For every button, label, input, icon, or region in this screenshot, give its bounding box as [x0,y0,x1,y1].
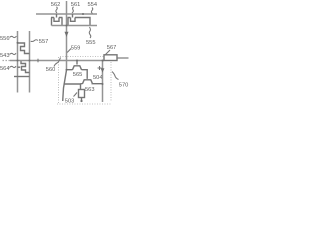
stub tick [37,59,39,63]
label 561 [71,2,81,8]
leader from 557 to line [31,40,38,42]
leader from 570 to boundary [112,72,119,80]
label 553 [85,87,95,93]
leader from 559 to vertical [67,49,71,53]
svg-text:555: 555 [86,40,96,46]
label 554 [88,2,98,8]
dotted boundary left edge [58,57,60,104]
dotted boundary bottom edge [57,103,111,105]
transistor 562 [51,14,63,26]
label 560 [46,67,56,73]
svg-text:564: 564 [0,66,10,72]
leader from 562 [56,7,57,13]
svg-text:503: 503 [65,98,75,104]
leader from 554 to rail [91,8,92,14]
dotted boundary top edge [60,56,104,58]
svg-text:557: 557 [39,39,49,45]
transistor 566 body [81,80,103,84]
label 555 [86,40,96,46]
label 563 [0,53,10,59]
label 565 [73,72,83,78]
leader from 564 [10,66,17,67]
leader from 555 up to wire [89,27,91,38]
wire: right vertical supply [102,61,104,103]
leader from 561 [72,7,74,13]
box 553 element [79,90,85,98]
box 567 terminal [104,55,117,61]
label 566 [93,75,103,81]
wire: output line right of box [117,57,129,59]
wire: second left vertical line 557 [29,31,31,93]
junction dots on supply line [17,60,19,62]
label 559 [71,45,81,51]
label 567 [107,45,117,51]
svg-text:565: 565 [73,72,83,78]
junction on rail [82,13,84,15]
junction at 555 wire [66,25,68,27]
label 556 [0,36,10,42]
transistor 565 gate stub [76,61,78,65]
label 562 [51,2,61,8]
wire: horizontal supply line [3,60,11,62]
svg-text:562: 562 [51,2,61,8]
transistor 564 body and wires [21,61,30,73]
wire: tilted vertical from node down [63,70,67,101]
junction at left electrode [66,69,68,71]
transistor 563 body and wires [18,43,30,54]
label 568 [65,98,75,104]
wire: vertical signal line through node 559 [66,1,68,70]
leader from 556 to line [10,36,17,37]
wire 555 node line [52,25,98,27]
junction [17,42,19,44]
svg-text:563: 563 [85,87,95,93]
arrowhead down on vertical [65,32,69,37]
svg-text:559: 559 [71,45,81,51]
leader from 567 to box [105,50,110,55]
svg-text:543: 543 [0,53,10,59]
svg-text:567: 567 [107,45,117,51]
svg-text:556: 556 [0,36,10,42]
label 570 far right [119,82,129,88]
wire: bar joining left verticals [14,76,30,78]
label 557 [39,39,49,45]
leader from 560 to boundary [54,58,61,67]
svg-text:560: 560 [46,67,56,73]
label 564 [0,66,10,72]
transistor 565 body [67,66,87,70]
wire: below box [81,98,83,103]
wire: left vertical line 556 [17,31,19,93]
svg-text:561: 561 [71,2,81,8]
svg-text:570: 570 [119,82,129,88]
dotted boundary right edge [110,62,112,101]
leader from 563 [10,53,17,54]
wire: scan line 554 top rail [36,13,97,15]
wire: 566 source to left vertical [64,84,81,90]
svg-text:504: 504 [93,75,103,81]
svg-text:554: 554 [88,2,98,8]
wire: drain of 561 to node [79,18,91,26]
leader from 568 to box [74,93,78,97]
wire: 565 drain to 566 gate [86,70,89,79]
plus polarity mark [98,66,102,70]
transistor 564 gate wire [18,66,21,68]
transistor 561 [68,14,79,26]
